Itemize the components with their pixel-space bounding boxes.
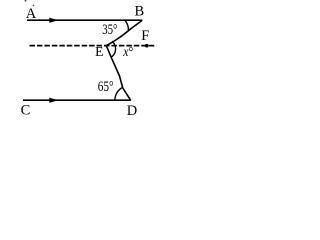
- svg-text:A: A: [26, 6, 37, 22]
- svg-text:E: E: [95, 44, 103, 59]
- svg-text:F: F: [141, 28, 149, 44]
- svg-text:x°: x°: [122, 45, 133, 60]
- svg-text:35°: 35°: [102, 22, 117, 38]
- svg-text:B: B: [134, 4, 144, 20]
- svg-text:D: D: [127, 103, 137, 119]
- svg-text:65°: 65°: [98, 79, 114, 95]
- svg-text:C: C: [21, 102, 31, 118]
